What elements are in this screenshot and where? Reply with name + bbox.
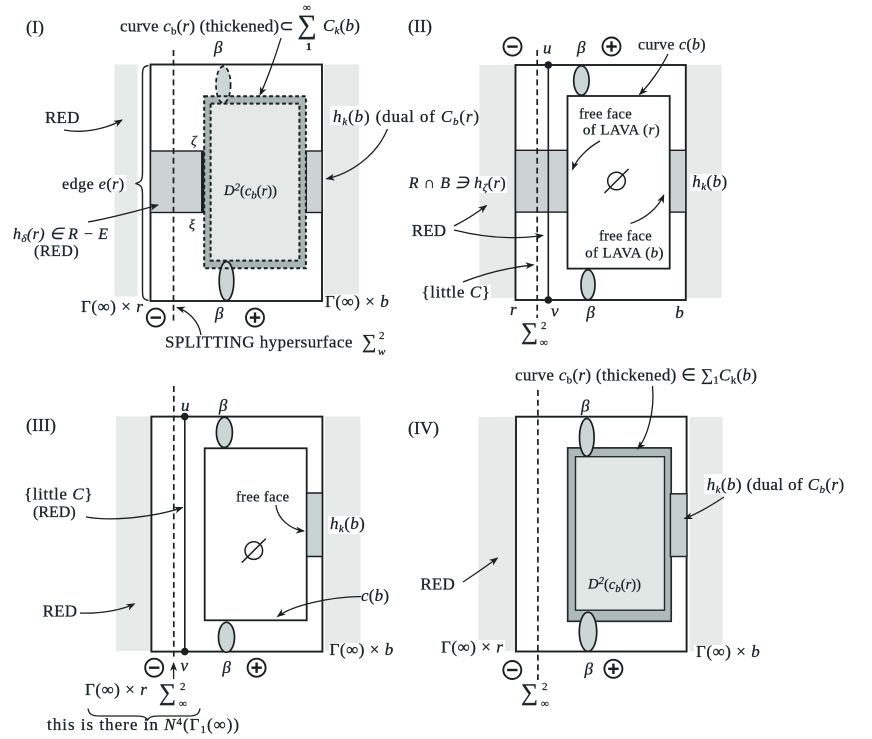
svg-text:∞: ∞: [179, 698, 187, 710]
svg-text:curve c(b): curve c(b): [638, 37, 706, 54]
svg-text:∞: ∞: [541, 698, 549, 710]
svg-text:{little C}: {little C}: [24, 485, 93, 504]
svg-text:SPLITTING hypersurface: SPLITTING hypersurface: [165, 333, 353, 352]
svg-text:Ck(b): Ck(b): [323, 16, 360, 37]
svg-text:Γ(∞) × r: Γ(∞) × r: [85, 680, 147, 699]
svg-text:D2(cb(r)): D2(cb(r)): [587, 575, 641, 595]
svg-text:∑: ∑: [159, 680, 176, 706]
svg-text:Γ(∞) × b: Γ(∞) × b: [325, 292, 389, 311]
svg-text:c(b): c(b): [361, 586, 389, 605]
svg-text:∑: ∑: [521, 319, 538, 345]
svg-text:Γ(∞) × b: Γ(∞) × b: [330, 640, 394, 659]
svg-text:curve cb(r) (thickened)⊂: curve cb(r) (thickened)⊂: [120, 17, 294, 38]
svg-text:{little C}: {little C}: [422, 283, 491, 302]
svg-text:β: β: [213, 38, 223, 57]
svg-text:hk(b) (dual of Cb(r): hk(b) (dual of Cb(r): [333, 107, 480, 128]
svg-text:R ∩ B ∋ hζ(r): R ∩ B ∋ hζ(r): [408, 175, 507, 194]
svg-text:β: β: [584, 660, 594, 679]
svg-text:ξ: ξ: [189, 218, 195, 233]
svg-text:(IV): (IV): [408, 418, 439, 439]
svg-text:RED: RED: [412, 221, 447, 240]
svg-text:r: r: [510, 300, 517, 319]
svg-text:D2(cb(r)): D2(cb(r)): [223, 182, 277, 202]
svg-text:curve cb(r) (thickened) ∈ ∑1Ck: curve cb(r) (thickened) ∈ ∑1Ck(b): [515, 366, 757, 387]
svg-text:2: 2: [180, 681, 186, 693]
svg-text:2: 2: [541, 320, 547, 332]
svg-text:∑: ∑: [521, 680, 538, 706]
svg-text:(RED): (RED): [34, 243, 79, 260]
svg-text:∑: ∑: [362, 331, 376, 353]
svg-text:1: 1: [306, 41, 312, 53]
svg-text:RED: RED: [420, 575, 455, 594]
svg-text:Γ(∞) × b: Γ(∞) × b: [696, 642, 760, 661]
svg-text:u: u: [543, 39, 552, 58]
svg-text:v: v: [551, 302, 559, 321]
svg-text:β: β: [580, 397, 590, 416]
svg-text:v: v: [181, 656, 189, 675]
svg-text:b: b: [675, 303, 684, 322]
svg-text:edge e(r): edge e(r): [62, 176, 125, 193]
svg-text:RED: RED: [43, 602, 78, 621]
svg-text:(II): (II): [408, 16, 432, 37]
svg-text:(I): (I): [26, 17, 44, 38]
svg-text:of LAVA (r): of LAVA (r): [583, 123, 660, 139]
svg-text:∞: ∞: [540, 337, 548, 349]
svg-text:β: β: [585, 303, 595, 322]
svg-text:2: 2: [379, 330, 385, 342]
svg-text:RED: RED: [45, 108, 80, 127]
svg-text:β: β: [221, 658, 231, 677]
svg-text:Γ(∞) × r: Γ(∞) × r: [81, 297, 143, 316]
svg-text:∞: ∞: [303, 2, 311, 14]
svg-text:hk(b): hk(b): [692, 172, 727, 193]
svg-text:free face: free face: [599, 229, 652, 245]
svg-text:∑: ∑: [298, 10, 317, 40]
svg-text:free face: free face: [579, 107, 632, 123]
svg-text:β: β: [576, 38, 586, 57]
svg-text:w: w: [378, 346, 386, 358]
svg-text:(RED): (RED): [33, 504, 76, 521]
svg-text:(III): (III): [26, 415, 56, 436]
svg-text:of LAVA (b): of LAVA (b): [585, 246, 664, 262]
svg-text:hk(b) (dual of Cb(r): hk(b) (dual of Cb(r): [707, 475, 845, 496]
svg-text:β: β: [218, 396, 228, 415]
svg-text:2: 2: [542, 681, 548, 693]
svg-text:this is there in N4(Γ1(∞)): this is there in N4(Γ1(∞)): [47, 715, 240, 736]
svg-text:u: u: [181, 396, 190, 415]
svg-text:β: β: [214, 304, 224, 323]
svg-text:hk(b): hk(b): [330, 514, 365, 535]
svg-text:Γ(∞) × r: Γ(∞) × r: [441, 638, 503, 657]
svg-text:free face: free face: [236, 490, 289, 506]
